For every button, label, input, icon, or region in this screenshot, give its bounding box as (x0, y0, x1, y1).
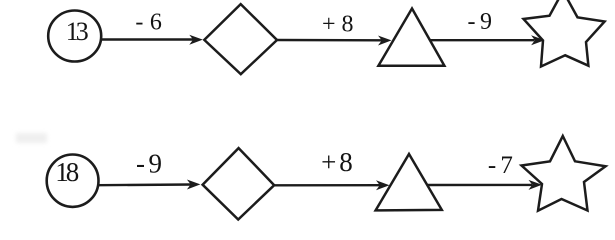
svg-text:+ 8: + 8 (321, 147, 353, 177)
diamond row2 (203, 148, 275, 219)
svg-text:- 7: - 7 (488, 152, 513, 179)
svg-text:18: 18 (55, 157, 79, 187)
svg-text:13: 13 (66, 17, 89, 46)
wire row1 arrow3 (430, 39, 535, 41)
svg-text:- 9: - 9 (136, 149, 162, 179)
svg-text:- 9: - 9 (467, 9, 492, 35)
arrowhead row1 arrow2 (378, 36, 392, 46)
triangle row1 (378, 9, 444, 66)
wire row2 arrow2 (274, 184, 381, 187)
arrowhead row2 arrow1 (187, 180, 201, 190)
arrowhead row2 arrow3 (529, 180, 543, 190)
svg-text:- 6: - 6 (135, 10, 162, 36)
arrowhead row2 arrow2 (376, 180, 390, 190)
wire row1 arrow1 (101, 38, 193, 40)
wire row2 arrow1 (98, 183, 192, 186)
circle 18 (47, 155, 99, 207)
wire row1 arrow2 (277, 39, 383, 42)
arrowhead row1 arrow1 (189, 35, 203, 45)
triangle row2 (376, 154, 442, 210)
star row2 (522, 136, 606, 211)
arrowhead row1 arrow3 (531, 35, 545, 45)
diamond row1 (204, 4, 277, 74)
wire row2 arrow3 (427, 184, 532, 187)
svg-text:+ 8: + 8 (322, 11, 354, 37)
circle 13 (48, 11, 101, 62)
star row1 (524, 0, 605, 67)
